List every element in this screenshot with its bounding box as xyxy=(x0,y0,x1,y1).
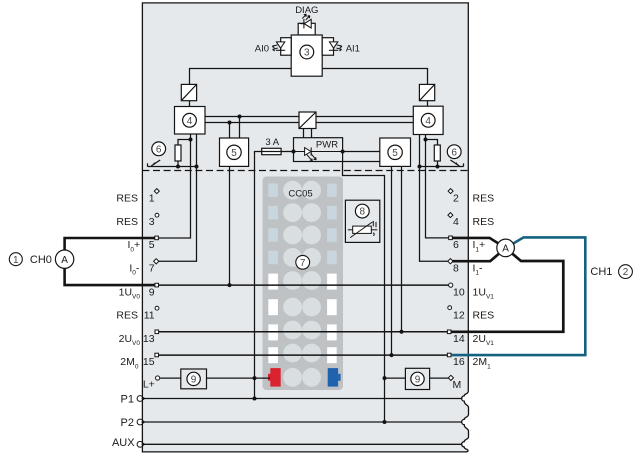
svg-text:L+: L+ xyxy=(143,379,155,391)
svg-text:A: A xyxy=(502,244,509,255)
svg-text:1: 1 xyxy=(13,255,19,266)
svg-text:RES: RES xyxy=(473,310,495,322)
dashed separator line xyxy=(142,170,468,172)
svg-text:4: 4 xyxy=(187,116,193,127)
wire: upper bus line between box4s xyxy=(205,116,413,118)
wire: box4L to terminal 5 xyxy=(158,134,190,238)
wire: left resistor top link xyxy=(178,140,191,146)
box 4 right xyxy=(413,106,443,134)
svg-text:12: 12 xyxy=(453,310,465,322)
ADC left (square with diagonal) xyxy=(181,84,196,100)
wire: left resistor bottom link xyxy=(177,161,179,167)
callout 6 right xyxy=(447,145,461,159)
wire: lower bus line between box4s xyxy=(205,122,413,124)
callout 6 left xyxy=(152,142,166,156)
svg-text:CH1: CH1 xyxy=(590,266,612,278)
svg-text:16: 16 xyxy=(453,356,465,368)
op box U3 (common electronics) xyxy=(291,35,322,76)
svg-text:9: 9 xyxy=(415,375,421,386)
shunt resistor right xyxy=(434,145,440,161)
AUX terminal xyxy=(137,441,144,447)
svg-text:8: 8 xyxy=(453,262,459,274)
side tabs lower (white) xyxy=(268,274,336,364)
ammeter A (CH1) xyxy=(497,239,515,257)
svg-text:2M1: 2M1 xyxy=(473,356,492,370)
center isolation square with diagonal xyxy=(299,112,316,129)
svg-text:A: A xyxy=(61,255,68,266)
svg-text:PWR: PWR xyxy=(316,140,338,151)
svg-text:1UV0: 1UV0 xyxy=(119,286,141,300)
DIAG LED xyxy=(301,14,312,28)
callout 3 xyxy=(300,45,314,59)
wire: PWR return to P2 rail xyxy=(343,162,385,423)
wire: box5R down to 2UV line xyxy=(401,167,403,332)
wire: 1UV0 to 1UV1 row 9-10 xyxy=(159,284,449,286)
svg-text:AI0: AI0 xyxy=(255,44,269,55)
P1 terminal xyxy=(137,396,144,402)
svg-text:P2: P2 xyxy=(121,417,134,429)
svg-text:9: 9 xyxy=(191,375,197,386)
svg-text:1: 1 xyxy=(149,193,155,205)
switch arrow right xyxy=(455,162,458,166)
wire: box9L to backplane xyxy=(207,377,271,379)
svg-text:CC05: CC05 xyxy=(288,188,312,199)
svg-text:10: 10 xyxy=(453,286,465,298)
wire: box4R to terminal 6 xyxy=(426,135,449,238)
wire: PWR box bottom to box5 right (lower) xyxy=(343,161,380,163)
wire: right resistor top link xyxy=(426,140,438,146)
box 5 left xyxy=(220,138,249,166)
ADC right (square with diagonal) xyxy=(419,84,434,100)
P2 terminal xyxy=(137,419,144,425)
fuse 3A xyxy=(262,148,281,154)
wire: box5L down to 1UV0 line xyxy=(229,167,231,286)
svg-text:I0+: I0+ xyxy=(128,239,141,253)
svg-text:7: 7 xyxy=(149,262,155,274)
svg-text:3: 3 xyxy=(149,216,155,228)
wire: 2UV0 to 2UV1 row 13-14 xyxy=(159,331,448,333)
svg-text:M: M xyxy=(453,379,462,391)
svg-text:AUX: AUX xyxy=(112,437,135,449)
svg-text:14: 14 xyxy=(453,333,465,345)
svg-text:RES: RES xyxy=(116,310,138,322)
wire: L+ to box9L xyxy=(160,377,181,379)
wire: right shunt line to edge xyxy=(420,163,464,166)
AI1 LED stub box xyxy=(322,38,333,56)
switch arrow left xyxy=(152,162,155,166)
callout 2 xyxy=(619,265,633,279)
wire: right resistor bottom link xyxy=(437,161,439,167)
terminal symbols: circles xyxy=(155,213,453,380)
wire: box9R feed from PWR return xyxy=(385,377,406,379)
svg-text:2M0: 2M0 xyxy=(120,356,139,370)
PWR box xyxy=(294,138,343,162)
svg-text:11: 11 xyxy=(144,310,155,322)
svg-text:5: 5 xyxy=(231,148,237,159)
wire: center square to PWR box stubs xyxy=(303,129,305,138)
wire: bus box3 right to right ADC xyxy=(322,69,427,85)
switch blade right xyxy=(450,160,459,166)
terminal symbols: diamonds xyxy=(154,189,454,381)
svg-text:RES: RES xyxy=(473,216,495,228)
wire: box4L to terminal 7 xyxy=(159,134,197,261)
svg-text:8: 8 xyxy=(360,207,366,218)
wire: 2M0 to 2M1 row 15-16 xyxy=(159,354,450,356)
svg-text:7: 7 xyxy=(300,258,306,269)
AI0 LED xyxy=(272,42,285,51)
shunt resistor left xyxy=(175,145,181,161)
svg-text:AI1: AI1 xyxy=(346,44,360,55)
callout 1 xyxy=(9,253,22,266)
svg-text:2: 2 xyxy=(453,193,459,205)
P1 rail xyxy=(143,398,463,400)
ammeter A (CH0) xyxy=(55,250,73,268)
module body outline with wavy right-edge break marks xyxy=(142,3,468,452)
AI1 LED xyxy=(329,42,342,51)
box 9 left xyxy=(181,369,207,389)
terminal numbers left xyxy=(143,193,155,391)
svg-text:I0-: I0- xyxy=(129,262,140,276)
wire: fuse feed down to L+ and P1 xyxy=(255,152,262,399)
wire: box5R down to 2M line xyxy=(391,167,393,356)
svg-text:9: 9 xyxy=(149,286,155,298)
svg-text:15: 15 xyxy=(143,356,155,368)
wire: fuse to PWR box xyxy=(281,151,293,153)
svg-text:6: 6 xyxy=(453,239,459,251)
box 5 right xyxy=(380,138,411,166)
svg-text:RES: RES xyxy=(473,193,495,205)
svg-text:2UV1: 2UV1 xyxy=(473,333,495,347)
box 9 right xyxy=(405,368,429,389)
wire: left shunt line to edge xyxy=(148,163,197,166)
svg-text:4: 4 xyxy=(425,116,431,127)
CH0 measuring loop (bold) xyxy=(65,238,155,250)
box 8 (measuring range module) xyxy=(345,200,379,242)
P2 rail xyxy=(143,421,463,423)
svg-text:2UV0: 2UV0 xyxy=(119,333,141,347)
svg-text:RES: RES xyxy=(116,216,138,228)
callout 7 xyxy=(296,255,310,269)
svg-text:P1: P1 xyxy=(121,393,134,405)
svg-text:3 A: 3 A xyxy=(265,137,279,148)
wire: right ADC to box4 right xyxy=(427,101,429,107)
svg-text:13: 13 xyxy=(143,333,155,345)
CH1 wire terminal 6 to ammeter (bold) xyxy=(452,238,505,248)
svg-text:6: 6 xyxy=(156,144,162,155)
wire: stub lower bus to box5 left xyxy=(229,123,231,139)
wire: box9R to terminal M xyxy=(430,377,449,379)
svg-text:DIAG: DIAG xyxy=(295,5,318,16)
AI0 LED stub box xyxy=(281,38,292,56)
svg-text:RES: RES xyxy=(116,193,138,205)
box 4 left xyxy=(175,107,206,135)
CH1 return loop terminal 8 to 14 (bold) xyxy=(451,248,563,332)
potentiometer symbol in box 8 xyxy=(348,221,378,238)
svg-text:1UV1: 1UV1 xyxy=(473,286,495,300)
CC05 coding connector block xyxy=(263,177,344,391)
wire: PWR box to box5 right (upper) xyxy=(343,151,380,153)
wire: bus box3 left to left ADC xyxy=(190,69,292,85)
PWR LED xyxy=(294,147,343,161)
svg-text:5: 5 xyxy=(392,148,398,159)
pin labels right xyxy=(473,193,495,371)
svg-text:2: 2 xyxy=(623,267,629,278)
pin labels left xyxy=(116,193,140,371)
svg-text:CH0: CH0 xyxy=(30,254,52,266)
contact circles two columns xyxy=(283,181,321,387)
terminal numbers right xyxy=(453,193,465,391)
AUX rail xyxy=(143,443,463,445)
DIAG LED stub box xyxy=(298,23,315,35)
switch blade left xyxy=(151,160,160,166)
svg-text:6: 6 xyxy=(451,147,457,158)
svg-text:4: 4 xyxy=(453,216,459,228)
red coding marker xyxy=(268,368,281,387)
wire CH0 lower xyxy=(65,268,155,285)
wire: left ADC to box4 left xyxy=(189,101,191,107)
wire: stub upper bus to box5 left xyxy=(239,117,241,139)
svg-text:3: 3 xyxy=(304,48,310,59)
svg-text:I1-: I1- xyxy=(473,262,484,276)
CH1 teal loop ammeter to terminal 16 xyxy=(451,237,585,355)
side tabs upper (bluish) xyxy=(268,184,336,265)
terminal symbols: squares xyxy=(155,236,453,357)
blue coding marker xyxy=(328,368,341,387)
svg-text:I1+: I1+ xyxy=(473,239,486,253)
wire: box4R to terminal 8 xyxy=(420,135,449,262)
svg-text:5: 5 xyxy=(149,239,155,251)
